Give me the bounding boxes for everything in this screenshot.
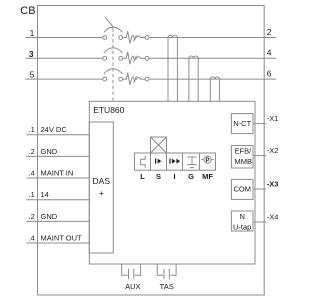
wire phase L3 right	[149, 78, 276, 80]
wire phase L3 left (terminal 5)	[25, 78, 103, 80]
svg-text:MAINT IN: MAINT IN	[41, 169, 74, 178]
breaker pole 1 contacts	[103, 36, 107, 40]
CT winding phase 1	[168, 35, 177, 101]
svg-text:2: 2	[267, 27, 272, 37]
svg-text:G: G	[188, 172, 194, 181]
svg-text:.2: .2	[29, 147, 35, 156]
svg-text:-X4: -X4	[267, 213, 279, 222]
terminal box EFB/MMB	[231, 146, 253, 168]
L long-time symbol	[141, 156, 146, 168]
svg-text:ETU860: ETU860	[93, 105, 124, 115]
terminal box N U-tap	[231, 211, 253, 231]
wire phase L2 left (terminal 3)	[25, 57, 103, 59]
TAS plug terminal	[157, 264, 176, 279]
svg-text:P: P	[205, 158, 209, 164]
terminal box N-CT	[231, 114, 253, 134]
wire GND 1	[26, 155, 89, 157]
svg-text:.2: .2	[29, 212, 35, 221]
svg-text:+: +	[99, 188, 104, 198]
svg-text:24V DC: 24V DC	[41, 125, 68, 134]
svg-text:EFB/: EFB/	[235, 147, 253, 156]
S short-time symbol I>	[155, 159, 161, 164]
wire phase L2 right	[149, 57, 276, 59]
svg-text:COM: COM	[233, 185, 251, 194]
svg-text:AUX: AUX	[125, 282, 140, 291]
svg-text:I: I	[173, 172, 175, 181]
wire -X1	[253, 123, 266, 125]
svg-text:.1: .1	[29, 190, 35, 199]
wire GND 2	[26, 220, 89, 222]
sensor squiggle pole 2	[123, 52, 146, 64]
svg-text:14: 14	[41, 190, 49, 199]
wire MAINT OUT	[26, 242, 89, 244]
svg-text:DAS: DAS	[93, 176, 111, 186]
sensor squiggle pole 3	[123, 73, 146, 85]
I instantaneous symbol I>>	[169, 159, 180, 164]
svg-text:-X1: -X1	[267, 114, 279, 123]
svg-text:TAS: TAS	[160, 282, 174, 291]
wire -X3	[253, 188, 266, 190]
pole 1 load-side contact circle	[145, 36, 149, 40]
mechanical linkage dashed line	[112, 34, 114, 102]
svg-text:S: S	[156, 172, 161, 181]
svg-text:CB: CB	[20, 5, 35, 17]
wire -X4	[253, 221, 266, 223]
svg-text:1: 1	[30, 28, 35, 38]
svg-text:U-tap: U-tap	[233, 223, 251, 232]
pole 2 load-side contact circle	[145, 56, 149, 60]
ETU860 trip unit box	[89, 101, 255, 264]
svg-text:.1: .1	[29, 125, 35, 134]
protection function boxes row	[135, 153, 151, 170]
wire phase L1 left (terminal 1)	[25, 37, 103, 39]
CT winding phase 3	[210, 77, 219, 101]
svg-text:N-CT: N-CT	[233, 119, 251, 128]
breaker pole 2 contacts	[103, 56, 107, 60]
svg-text:-X2: -X2	[267, 146, 279, 155]
breaker pole 3 contacts	[103, 77, 107, 81]
wire -X2	[253, 155, 266, 157]
svg-text:N: N	[239, 212, 244, 221]
DAS+ module box	[89, 122, 113, 253]
MF power-meter symbol	[201, 156, 213, 163]
svg-text:-X3: -X3	[267, 180, 279, 189]
svg-text:MMB: MMB	[235, 157, 253, 166]
svg-text:MAINT OUT: MAINT OUT	[41, 234, 83, 243]
svg-text:L: L	[140, 172, 145, 181]
svg-text:MF: MF	[202, 172, 213, 181]
wire phase L1 right	[149, 37, 276, 39]
svg-text:5: 5	[30, 70, 35, 80]
operating lever pole 1	[105, 17, 113, 32]
svg-text:GND: GND	[41, 147, 58, 156]
outer CB enclosure box	[38, 6, 265, 296]
svg-text:4: 4	[267, 48, 272, 58]
svg-text:.4: .4	[29, 234, 35, 243]
G ground-fault symbol	[187, 157, 197, 168]
wire MAINT IN	[26, 177, 89, 179]
pole 3 load-side contact circle	[145, 77, 149, 81]
wire 24V DC	[26, 134, 89, 136]
crossed box above S	[151, 137, 167, 153]
AUX plug terminal	[122, 264, 141, 279]
terminal box COM	[231, 179, 253, 199]
wire 14	[26, 199, 89, 201]
CT winding phase 2	[189, 56, 198, 101]
svg-text:.4: .4	[29, 169, 35, 178]
svg-text:3: 3	[29, 49, 34, 59]
sensor squiggle pole 1	[123, 31, 146, 43]
svg-text:GND: GND	[41, 212, 58, 221]
svg-text:6: 6	[267, 68, 272, 78]
